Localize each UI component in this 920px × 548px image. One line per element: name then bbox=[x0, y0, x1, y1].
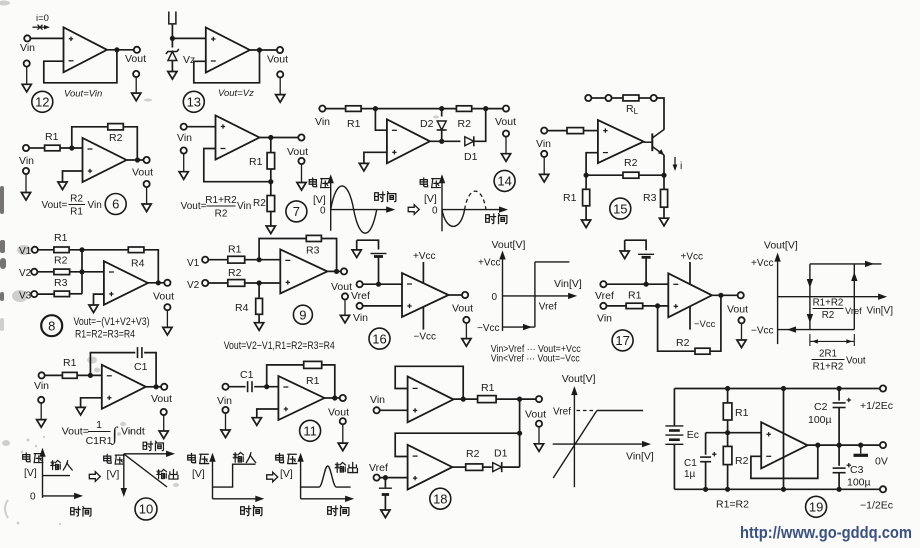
arrow on low segment (ckt16 graph) bbox=[523, 324, 532, 330]
wire R2 to bottom rail (ckt19) bbox=[727, 465, 729, 490]
wire battery to Vref line (ckt16) bbox=[378, 258, 380, 284]
feedback wire (ckt19) bbox=[751, 445, 818, 478]
Vout ground terminal (ckt18) bbox=[534, 421, 543, 452]
wire R2 to Vout (ckt14) bbox=[472, 108, 503, 110]
horizontal axis (ckt10 left graph) bbox=[43, 495, 81, 497]
circled number 12 bbox=[32, 91, 53, 112]
svg-text:0: 0 bbox=[320, 206, 326, 217]
capacitor C1 1u (ckt19) bbox=[700, 452, 716, 462]
svg-text:14: 14 bbox=[497, 174, 511, 189]
down arrow lower (ckt17 graph) bbox=[807, 314, 813, 323]
horizontal axis (ckt18 graph) bbox=[553, 443, 648, 445]
svg-text:[V]: [V] bbox=[107, 469, 120, 481]
svg-text:8: 8 bbox=[48, 318, 55, 333]
axis label time (ckt14 left graph) bbox=[375, 192, 396, 202]
svg-text:V1: V1 bbox=[187, 258, 200, 269]
op-amp (ckt8) bbox=[104, 261, 148, 305]
circled number 14 bbox=[494, 170, 515, 191]
svg-text:V3: V3 bbox=[19, 291, 32, 302]
node R2 R3 (ckt15) bbox=[661, 173, 666, 178]
resistor R2 (ckt15) bbox=[623, 172, 639, 178]
svg-text:Vout[V]: Vout[V] bbox=[764, 240, 798, 252]
resistor R4 (ckt9) bbox=[256, 298, 263, 314]
wire output to R1 (ckt7) bbox=[270, 138, 272, 153]
resistor R2 (ckt18) bbox=[466, 464, 483, 471]
node at -input branch (ckt14) bbox=[373, 106, 378, 111]
svg-text:R2: R2 bbox=[253, 198, 266, 209]
wire output (ckt12) bbox=[107, 49, 134, 51]
output terminal Vout (ckt18) bbox=[536, 396, 542, 402]
resistor R1 (ckt17) bbox=[626, 303, 643, 308]
wire R1 to -input (ckt10) bbox=[77, 374, 102, 376]
resistor R3 (ckt8) bbox=[54, 291, 69, 297]
wire +input to ground (ckt11) bbox=[257, 409, 279, 418]
reference battery (ckt18) bbox=[379, 488, 392, 494]
summing node mid (ckt8) bbox=[79, 269, 84, 274]
Vref node (ckt18) bbox=[383, 475, 388, 480]
block arrow (ckt10) bbox=[89, 472, 100, 482]
horizontal axis (ckt17 graph) bbox=[778, 296, 885, 298]
wire output (ckt13) bbox=[250, 49, 277, 51]
input level line (ckt10 left graph) bbox=[43, 475, 71, 477]
wire C3 to bottom rail (ckt19) bbox=[838, 473, 840, 490]
svg-text:Vin[V]: Vin[V] bbox=[626, 451, 654, 463]
ground at +input (ckt10) bbox=[76, 407, 85, 415]
output terminal Vout (ckt14) bbox=[503, 106, 509, 112]
current arrow with x (ckt12) bbox=[33, 26, 47, 28]
wire V1 to R1 (ckt8) bbox=[38, 249, 54, 251]
resistor R1 feedback (ckt11) bbox=[304, 361, 322, 368]
Vout ground terminal (ckt6) bbox=[142, 181, 151, 212]
None bbox=[207, 205, 236, 207]
wire V3 to R3 (ckt8) bbox=[37, 293, 54, 295]
op-amp (ckt7) bbox=[216, 116, 260, 160]
svg-text:R1: R1 bbox=[54, 232, 68, 244]
hysteresis left vertical (ckt17 graph) bbox=[809, 264, 811, 330]
axis label time (ckt10 left graph) bbox=[71, 507, 91, 517]
current arrow i (ckt15) bbox=[673, 157, 678, 171]
ground at +input (ckt14) bbox=[359, 163, 368, 171]
svg-text:[V]: [V] bbox=[313, 194, 326, 206]
bottom level line (ckt17 graph) bbox=[778, 329, 855, 331]
svg-text:Ec: Ec bbox=[687, 429, 699, 441]
output node (ckt10) bbox=[154, 384, 159, 389]
inverting input node (ckt6) bbox=[69, 145, 74, 150]
capacitor C2 100u (ckt19) bbox=[833, 398, 851, 408]
axis arrow up (ckt11 right graph) bbox=[297, 453, 303, 462]
output node (ckt6) bbox=[135, 157, 140, 162]
svg-text:Vout: Vout bbox=[267, 54, 288, 66]
ground of reference battery (ckt17) bbox=[620, 251, 629, 259]
svg-text:R3: R3 bbox=[54, 277, 68, 289]
wire Vin to C1 (ckt11) bbox=[229, 386, 246, 388]
resistor R3 (ckt15) bbox=[661, 189, 668, 207]
top rail node R1 (ckt19) bbox=[725, 386, 730, 391]
resistor RL (ckt15) bbox=[623, 95, 639, 101]
label output (ckt11 right graph) bbox=[335, 462, 357, 472]
dashed Vref level (ckt18 graph) bbox=[577, 410, 596, 412]
wire R2 to emitter node (ckt15) bbox=[639, 174, 664, 176]
terminal -1/2Ec (ckt19) bbox=[880, 486, 886, 492]
None bbox=[853, 334, 855, 346]
input terminal Vin (ckt16) bbox=[357, 303, 363, 309]
output node (ckt11) bbox=[332, 395, 337, 400]
svg-text:1: 1 bbox=[96, 419, 102, 431]
junction D2 top (ckt14) bbox=[439, 106, 444, 111]
None bbox=[69, 204, 86, 206]
circled number 18 bbox=[430, 488, 451, 509]
vertical axis (ckt11 left graph) bbox=[212, 455, 214, 499]
output terminal Vout (ckt13) bbox=[277, 47, 283, 53]
input terminal Vref (ckt16) bbox=[357, 281, 363, 287]
formula Vout=R2/R1 Vin (ckt6) bbox=[42, 194, 102, 218]
svg-text:−Vcc: −Vcc bbox=[694, 319, 716, 330]
Vout ground terminal (ckt11) bbox=[338, 418, 347, 451]
step at Vref (ckt16 graph) bbox=[534, 262, 536, 327]
svg-text:Vout=: Vout= bbox=[181, 201, 207, 212]
positive half sine dashed (ckt14 right graph) bbox=[465, 191, 486, 209]
-Vcc pin (ckt17) bbox=[689, 307, 691, 330]
svg-text:Vout: Vout bbox=[331, 281, 352, 293]
feedback wire left (ckt10) bbox=[90, 353, 135, 376]
resistor R1 (ckt14) bbox=[346, 106, 362, 112]
svg-text:R1: R1 bbox=[70, 207, 83, 218]
wire R3 to node (ckt8) bbox=[70, 293, 82, 295]
feedback wire (ckt7) bbox=[204, 149, 271, 182]
svg-text:C1R1: C1R1 bbox=[86, 435, 113, 447]
input terminal V3 (ckt8) bbox=[31, 291, 37, 297]
vertical axis (ckt11 right graph) bbox=[300, 455, 302, 499]
dimension line 2R1/(R1+R2) Vout (ckt17 graph) bbox=[810, 334, 854, 346]
node R1 R2 (ckt15) bbox=[584, 173, 589, 178]
fraction (R1+R2)/R2 Vref (ckt17 graph) bbox=[813, 298, 863, 322]
svg-text:R1: R1 bbox=[563, 192, 577, 204]
Vout ground terminal (ckt16) bbox=[462, 317, 471, 346]
resistor R2 (ckt7) bbox=[267, 196, 275, 212]
svg-text:+Vcc: +Vcc bbox=[681, 252, 704, 263]
axis label time (ckt11 left graph) bbox=[241, 506, 262, 516]
svg-text:0: 0 bbox=[432, 206, 438, 217]
divider node (ckt7) bbox=[268, 179, 273, 184]
wire Vin to R1 (ckt17) bbox=[607, 305, 627, 307]
output node (ckt14) bbox=[439, 139, 444, 144]
svg-text:2R1: 2R1 bbox=[819, 349, 837, 360]
circled number 7 bbox=[286, 201, 307, 222]
vertical axis (ckt18 graph) bbox=[573, 388, 575, 487]
svg-text:R1: R1 bbox=[249, 156, 263, 168]
horizontal axis (ckt14 right graph) bbox=[442, 209, 505, 211]
axis label voltage (ckt10 left graph) bbox=[23, 453, 43, 463]
axis label time (ckt10 right graph) bbox=[143, 441, 163, 451]
svg-text:Vout: Vout bbox=[153, 291, 174, 303]
svg-text:Vout: Vout bbox=[452, 303, 473, 315]
svg-text:Vin[V]: Vin[V] bbox=[554, 278, 582, 290]
wire C1 to -input (ckt11) bbox=[254, 386, 278, 388]
top rail wire (ckt19) bbox=[674, 388, 880, 390]
Vref node (ckt17) bbox=[644, 282, 649, 287]
block arrow (ckt14) bbox=[408, 205, 419, 215]
wire output (ckt6) bbox=[127, 159, 144, 161]
battery bracket wire (ckt16) bbox=[357, 240, 379, 249]
wire battery to Vref line (ckt17) bbox=[645, 259, 647, 285]
input terminal Vin (ckt11) bbox=[222, 384, 228, 390]
svg-text:+Vcc: +Vcc bbox=[413, 251, 436, 262]
wire output (ckt17) bbox=[712, 294, 738, 296]
op-amp upper (ckt18) bbox=[408, 377, 454, 423]
wire R1 to -input (ckt6) bbox=[60, 147, 83, 149]
diode D2 (ckt14) bbox=[437, 121, 447, 130]
axis arrow up (ckt18 graph) bbox=[571, 386, 577, 395]
circled number 16 bbox=[369, 328, 390, 349]
svg-text:Vin[V]: Vin[V] bbox=[867, 306, 894, 317]
wire +input to ground (ckt14) bbox=[364, 152, 387, 163]
Vout ground terminal (ckt10) bbox=[159, 409, 168, 439]
output node (ckt17) bbox=[718, 293, 723, 298]
axis label voltage (ckt14 left graph) bbox=[309, 178, 329, 188]
Vin ground terminal (ckt10) bbox=[37, 397, 46, 427]
output node upper (ckt18) bbox=[461, 397, 466, 402]
feedback wire right (ckt10) bbox=[144, 353, 156, 387]
capacitor C1 (ckt11) bbox=[248, 381, 252, 392]
output terminal Vout (ckt10) bbox=[161, 384, 167, 390]
wire V2 to R2 (ckt8) bbox=[37, 271, 54, 273]
op-amp (ckt15) bbox=[598, 120, 644, 163]
bottom rail node C3 (ckt19) bbox=[837, 487, 842, 492]
wire C2 to 0V rail (ckt19) bbox=[838, 408, 840, 446]
svg-text:−Vcc: −Vcc bbox=[477, 323, 500, 334]
battery bracket wire (ckt17) bbox=[625, 240, 646, 250]
svg-text:R3: R3 bbox=[306, 245, 320, 257]
svg-text:Vref: Vref bbox=[351, 290, 370, 302]
feedback wire left (ckt11) bbox=[267, 365, 304, 387]
resistor R4 feedback (ckt8) bbox=[128, 247, 144, 253]
bottom rail node R2 (ckt19) bbox=[725, 487, 730, 492]
svg-text:[V]: [V] bbox=[424, 193, 437, 205]
ground (ckt13) bbox=[168, 72, 177, 80]
resistor R1 (ckt7) bbox=[267, 153, 275, 169]
svg-text:10: 10 bbox=[139, 502, 153, 517]
wire Vref to +input (ckt18) bbox=[380, 477, 408, 479]
feedback wire upper (ckt18) bbox=[395, 366, 463, 399]
output node (ckt7) bbox=[268, 135, 273, 140]
output node (ckt13) bbox=[257, 47, 262, 52]
wire output (ckt10) bbox=[146, 386, 161, 388]
ground below battery (ckt18) bbox=[381, 510, 390, 518]
top rail node C2 (ckt19) bbox=[837, 386, 842, 391]
op-amp lower (ckt18) bbox=[408, 445, 453, 490]
svg-text:+Vcc: +Vcc bbox=[751, 258, 774, 269]
terminal RL left (ckt15) bbox=[585, 95, 591, 101]
resistor R1 (ckt9) bbox=[228, 256, 245, 263]
svg-text:Vin<Vref ··· Vout=−Vcc: Vin<Vref ··· Vout=−Vcc bbox=[491, 354, 580, 365]
output node (ckt12) bbox=[114, 47, 119, 52]
resistor R2 (ckt14) bbox=[456, 106, 471, 112]
node +input (ckt9) bbox=[257, 280, 262, 285]
capacitor C1 feedback (ckt10) bbox=[138, 347, 142, 358]
svg-text:R2: R2 bbox=[54, 255, 68, 267]
input node (ckt13) bbox=[170, 36, 175, 41]
wire to C1 (ckt19) bbox=[705, 433, 707, 455]
wire R1 to ground (ckt15) bbox=[585, 206, 587, 220]
output terminal Vout (ckt16) bbox=[462, 292, 468, 298]
svg-text:[V]: [V] bbox=[192, 468, 205, 480]
circled number 9 bbox=[293, 305, 312, 324]
output node C2 C3 (ckt19) bbox=[837, 443, 842, 448]
node -input (ckt9) bbox=[257, 257, 262, 262]
resistor R2 (ckt19) bbox=[723, 446, 732, 464]
input terminal V1 (ckt9) bbox=[202, 257, 208, 263]
wire node to +input (ckt13) bbox=[172, 37, 205, 39]
wire rail to C2 (ckt19) bbox=[838, 389, 840, 401]
Vref node (ckt16) bbox=[376, 282, 381, 287]
horizontal axis (ckt14 left graph) bbox=[331, 209, 393, 211]
summing vertical wire (ckt8) bbox=[81, 250, 83, 294]
bottom rail node C1 (ckt19) bbox=[703, 487, 708, 492]
svg-text:http://www.go-gddq.com: http://www.go-gddq.com bbox=[740, 524, 912, 542]
wire R1 to R4 (ckt8) bbox=[69, 249, 128, 251]
svg-text:C2: C2 bbox=[814, 401, 828, 413]
wire node to zener (ckt13) bbox=[171, 38, 173, 47]
axis arrow right (ckt14 right graph) bbox=[499, 206, 508, 212]
wire divider to +input (ckt19) bbox=[706, 432, 762, 434]
svg-text:R2: R2 bbox=[109, 132, 123, 144]
axis label voltage (ckt14 right graph) bbox=[420, 178, 440, 188]
wire D1 to vertical (ckt18) bbox=[502, 466, 519, 468]
wire Vin to R1 (ckt14) bbox=[326, 108, 345, 110]
svg-text:R2: R2 bbox=[228, 267, 242, 279]
op-amp (ckt10) bbox=[102, 365, 146, 409]
svg-text:C1: C1 bbox=[240, 369, 254, 381]
None bbox=[809, 334, 811, 346]
output terminal Vout (ckt7) bbox=[298, 134, 304, 140]
op-amp (ckt19) bbox=[761, 422, 807, 468]
wire C1 to bottom rail (ckt19) bbox=[705, 462, 707, 490]
svg-text:17: 17 bbox=[615, 333, 629, 348]
output terminal Vout (ckt6) bbox=[144, 157, 150, 163]
input resistor (ckt15) bbox=[567, 128, 584, 134]
wire rail to R1 (ckt19) bbox=[727, 389, 729, 403]
summing node top (ckt8) bbox=[79, 247, 84, 252]
svg-text:Vin: Vin bbox=[315, 116, 330, 128]
up arrow (ckt17 graph) bbox=[851, 272, 857, 281]
axis arrow up (ckt14 right graph) bbox=[439, 174, 445, 183]
svg-text:Vref: Vref bbox=[539, 302, 557, 313]
resistor R3 feedback (ckt9) bbox=[306, 235, 321, 241]
feedback wire left (ckt17) bbox=[658, 306, 695, 351]
svg-text:R2: R2 bbox=[624, 157, 638, 169]
Vin ground terminal (ckt7) bbox=[179, 147, 188, 179]
input terminal Vin (ckt15) bbox=[541, 128, 547, 134]
svg-text:R1+R2: R1+R2 bbox=[205, 195, 237, 206]
axis label time (ckt11 right graph) bbox=[328, 506, 349, 516]
svg-text:Vindt: Vindt bbox=[121, 426, 145, 438]
output terminal Vout (ckt11) bbox=[340, 395, 346, 401]
wire to collector (ckt15) bbox=[657, 98, 664, 130]
svg-text:V1: V1 bbox=[19, 246, 32, 257]
op-amp comparator (ckt17) bbox=[668, 273, 712, 317]
bottom rail wire (ckt19) bbox=[674, 488, 880, 490]
resistor R1 (ckt19) bbox=[723, 403, 732, 420]
svg-text:Vin: Vin bbox=[237, 201, 251, 212]
+input node (ckt17) bbox=[655, 303, 660, 308]
svg-text:Vout: Vout bbox=[287, 146, 308, 158]
op-amp (ckt14) bbox=[387, 119, 430, 163]
wire emitter to node (ckt15) bbox=[663, 155, 665, 175]
ground below R2 (ckt7) bbox=[266, 226, 275, 234]
wire between terminals (ckt15) bbox=[591, 97, 605, 99]
input terminal Vin (ckt6) bbox=[23, 145, 29, 151]
svg-text:Vout[V]: Vout[V] bbox=[562, 373, 596, 385]
wire to RL (ckt15) bbox=[612, 97, 623, 99]
svg-text:1µ: 1µ bbox=[684, 469, 696, 480]
feedback wire (ckt13) bbox=[194, 50, 260, 83]
zener diode Vz (ckt13) bbox=[166, 49, 179, 61]
Vin ground terminal (ckt11) bbox=[221, 407, 230, 438]
svg-text:Vref: Vref bbox=[845, 306, 862, 316]
wire Vin to resistor (ckt15) bbox=[547, 130, 567, 132]
wire output to D1 (ckt14) bbox=[430, 140, 461, 142]
resistor R1 (ckt10) bbox=[62, 372, 77, 378]
wire resistor to +input (ckt15) bbox=[583, 130, 598, 132]
svg-text:R4: R4 bbox=[131, 258, 145, 270]
svg-text:Vout: Vout bbox=[495, 116, 516, 128]
svg-text:13: 13 bbox=[187, 95, 201, 110]
svg-text:R2: R2 bbox=[735, 455, 749, 467]
svg-text:i: i bbox=[680, 160, 682, 172]
svg-text:Vin: Vin bbox=[217, 395, 232, 407]
svg-text:R1+R2: R1+R2 bbox=[813, 362, 844, 373]
axis arrow right (ckt11 right graph) bbox=[345, 496, 354, 502]
wire Vin to +input (ckt18) bbox=[380, 409, 408, 411]
svg-text:9: 9 bbox=[299, 307, 306, 322]
output node 0V (ckt19) bbox=[858, 443, 863, 448]
capacitor C3 100u (ckt19) bbox=[833, 463, 851, 473]
svg-text:Vout=: Vout= bbox=[42, 200, 68, 211]
svg-text:D1: D1 bbox=[494, 448, 508, 460]
input terminal Vref (ckt18) bbox=[374, 475, 380, 481]
vertical axis (ckt10 left graph) bbox=[42, 450, 44, 498]
svg-text:R4: R4 bbox=[235, 302, 249, 314]
down arrow upper (ckt17 graph) bbox=[807, 279, 813, 288]
diode D1 (ckt18) bbox=[493, 462, 502, 472]
svg-text:Vin: Vin bbox=[177, 132, 192, 144]
op-amp (ckt6) bbox=[83, 138, 127, 182]
resistor R1 (ckt8) bbox=[54, 247, 69, 253]
axis label voltage (ckt11 right graph) bbox=[276, 453, 297, 463]
axis arrow down (ckt10 right graph) bbox=[121, 488, 127, 497]
terminal RL mid (ckt15) bbox=[605, 95, 611, 101]
+Vcc pin (ckt17) bbox=[689, 262, 691, 285]
svg-text:−Vcc: −Vcc bbox=[751, 326, 774, 337]
formula Vout=1/(C1R1) integral Vin dt (ckt10) bbox=[62, 419, 145, 447]
input terminal Vin (ckt17) bbox=[600, 303, 606, 309]
circled number 17 bbox=[612, 330, 633, 351]
axis arrow up (ckt17 graph) bbox=[774, 253, 780, 262]
clipped level line (ckt18 graph) bbox=[597, 410, 643, 412]
bracket left down (ckt17) bbox=[624, 240, 626, 251]
axis label voltage (ckt10 right graph) bbox=[104, 454, 124, 464]
input terminal Vin (ckt18) bbox=[374, 407, 380, 413]
+Vcc pin (ckt16) bbox=[422, 262, 424, 284]
circled number 8 bbox=[41, 315, 62, 336]
svg-text:19: 19 bbox=[809, 500, 823, 515]
axis arrow up (ckt14 left graph) bbox=[328, 174, 334, 183]
None bbox=[812, 359, 845, 361]
0V reference bar (ckt19) bbox=[854, 445, 869, 455]
Vin ground terminal (ckt12) bbox=[22, 60, 31, 92]
top rail node mid (ckt19) bbox=[781, 386, 786, 391]
wire R4 to ground (ckt9) bbox=[258, 314, 260, 322]
